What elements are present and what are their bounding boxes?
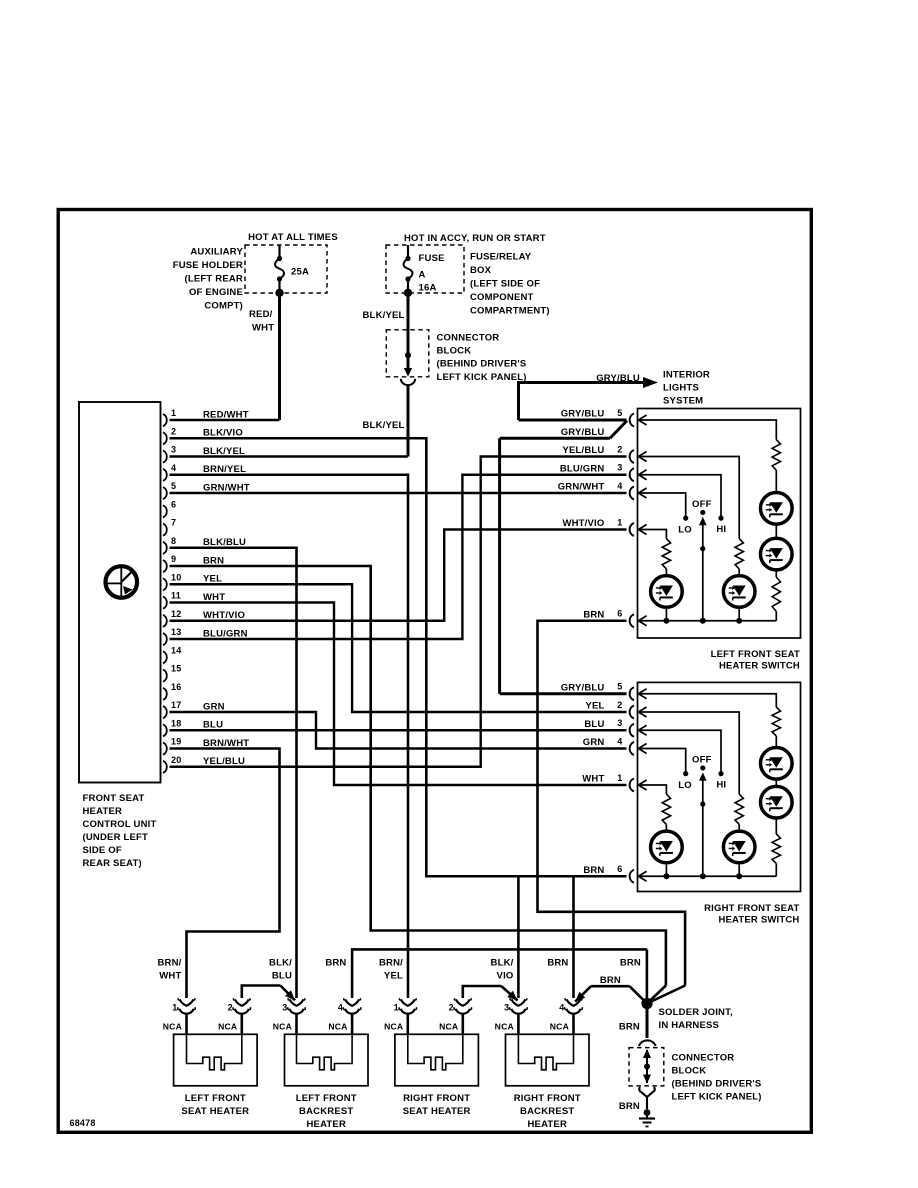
svg-text:GRY/BLU: GRY/BLU: [596, 373, 640, 384]
svg-text:OF ENGINE: OF ENGINE: [189, 287, 243, 298]
svg-text:3: 3: [282, 1002, 287, 1012]
svg-text:(UNDER LEFT: (UNDER LEFT: [83, 832, 149, 843]
svg-text:2: 2: [617, 700, 622, 710]
svg-text:BACKREST: BACKREST: [520, 1106, 574, 1117]
svg-text:4: 4: [559, 1002, 564, 1012]
svg-text:GRY/BLU: GRY/BLU: [561, 427, 605, 438]
svg-text:BRN: BRN: [547, 957, 568, 968]
svg-text:(LEFT REAR: (LEFT REAR: [185, 274, 243, 285]
svg-text:GRN: GRN: [203, 701, 225, 712]
svg-text:BLK/: BLK/: [269, 957, 292, 968]
svg-text:YEL: YEL: [384, 970, 403, 981]
svg-text:LO: LO: [678, 524, 692, 535]
svg-text:HOT IN ACCY, RUN OR START: HOT IN ACCY, RUN OR START: [404, 233, 546, 244]
svg-text:BRN: BRN: [620, 957, 641, 968]
svg-text:GRN/WHT: GRN/WHT: [203, 482, 250, 493]
svg-text:2: 2: [171, 426, 176, 436]
svg-text:3: 3: [504, 1002, 509, 1012]
svg-text:18: 18: [171, 718, 181, 728]
svg-text:HEATER: HEATER: [83, 806, 123, 817]
svg-text:YEL: YEL: [203, 574, 222, 585]
svg-text:1: 1: [394, 1002, 399, 1012]
svg-text:10: 10: [171, 572, 181, 582]
svg-text:HEATER: HEATER: [527, 1119, 567, 1130]
svg-text:6: 6: [617, 864, 622, 874]
svg-text:NCA: NCA: [550, 1021, 569, 1031]
svg-text:NCA: NCA: [328, 1021, 347, 1031]
svg-text:RIGHT FRONT: RIGHT FRONT: [403, 1093, 470, 1104]
svg-text:BRN: BRN: [619, 1021, 640, 1032]
svg-text:BLK/: BLK/: [491, 957, 514, 968]
svg-text:4: 4: [171, 463, 176, 473]
svg-text:13: 13: [171, 627, 181, 637]
svg-text:3: 3: [171, 445, 176, 455]
svg-text:NCA: NCA: [218, 1021, 237, 1031]
svg-text:5: 5: [617, 682, 622, 692]
svg-text:(BEHIND DRIVER'S: (BEHIND DRIVER'S: [672, 1079, 762, 1090]
svg-text:YEL/BLU: YEL/BLU: [203, 756, 245, 767]
svg-text:BLK/YEL: BLK/YEL: [363, 310, 405, 321]
svg-text:68478: 68478: [70, 1118, 96, 1128]
svg-text:6: 6: [171, 499, 176, 509]
svg-text:16: 16: [171, 682, 181, 692]
svg-text:COMPT): COMPT): [204, 301, 243, 312]
svg-text:BLU: BLU: [584, 719, 604, 730]
svg-text:BOX: BOX: [470, 265, 492, 276]
svg-text:4: 4: [617, 736, 622, 746]
svg-text:BLU: BLU: [272, 970, 292, 981]
svg-text:GRY/BLU: GRY/BLU: [561, 409, 605, 420]
svg-text:VIO: VIO: [497, 970, 514, 981]
svg-text:INTERIOR: INTERIOR: [663, 369, 710, 380]
svg-text:1: 1: [171, 408, 176, 418]
svg-text:LEFT KICK PANEL): LEFT KICK PANEL): [437, 372, 527, 383]
svg-text:BLU/GRN: BLU/GRN: [203, 628, 248, 639]
svg-text:RED/: RED/: [249, 309, 273, 320]
svg-text:15: 15: [171, 664, 181, 674]
svg-text:WHT: WHT: [252, 323, 274, 334]
svg-text:BACKREST: BACKREST: [299, 1106, 353, 1117]
svg-text:AUXILIARY: AUXILIARY: [190, 247, 243, 258]
svg-text:8: 8: [171, 536, 176, 546]
svg-text:12: 12: [171, 609, 181, 619]
svg-text:BRN: BRN: [583, 609, 604, 620]
svg-text:SOLDER JOINT,: SOLDER JOINT,: [659, 1007, 733, 1018]
svg-text:GRN/WHT: GRN/WHT: [558, 482, 605, 493]
svg-text:9: 9: [171, 554, 176, 564]
svg-text:BLU/GRN: BLU/GRN: [560, 463, 605, 474]
svg-text:4: 4: [338, 1002, 343, 1012]
svg-text:OFF: OFF: [692, 499, 712, 510]
svg-text:BLU: BLU: [203, 720, 223, 731]
svg-text:14: 14: [171, 645, 181, 655]
svg-text:HI: HI: [716, 780, 726, 791]
svg-text:NCA: NCA: [495, 1021, 514, 1031]
svg-text:HEATER SWITCH: HEATER SWITCH: [719, 660, 800, 671]
svg-text:GRN: GRN: [583, 737, 605, 748]
svg-text:BLK/YEL: BLK/YEL: [363, 420, 405, 431]
svg-text:LIGHTS: LIGHTS: [663, 382, 699, 393]
svg-text:COMPARTMENT): COMPARTMENT): [470, 305, 550, 316]
svg-text:HI: HI: [716, 524, 726, 535]
svg-text:LO: LO: [678, 780, 692, 791]
svg-text:RIGHT FRONT SEAT: RIGHT FRONT SEAT: [704, 903, 799, 914]
svg-text:20: 20: [171, 755, 181, 765]
svg-text:5: 5: [617, 408, 622, 418]
svg-text:WHT: WHT: [159, 970, 181, 981]
svg-text:SYSTEM: SYSTEM: [663, 395, 703, 406]
svg-text:WHT: WHT: [582, 774, 604, 785]
svg-text:IN HARNESS: IN HARNESS: [659, 1020, 720, 1031]
svg-text:5: 5: [171, 481, 176, 491]
svg-text:25A: 25A: [291, 266, 309, 277]
svg-text:WHT/VIO: WHT/VIO: [562, 518, 604, 529]
svg-text:BRN: BRN: [600, 975, 621, 986]
svg-text:WHT/VIO: WHT/VIO: [203, 610, 245, 621]
svg-text:7: 7: [171, 518, 176, 528]
svg-text:GRY/BLU: GRY/BLU: [561, 682, 605, 693]
svg-text:(LEFT SIDE OF: (LEFT SIDE OF: [470, 278, 540, 289]
svg-text:(BEHIND DRIVER'S: (BEHIND DRIVER'S: [437, 359, 527, 370]
svg-text:YEL/BLU: YEL/BLU: [562, 445, 604, 456]
svg-text:COMPONENT: COMPONENT: [470, 292, 534, 303]
svg-text:RED/WHT: RED/WHT: [203, 409, 249, 420]
svg-text:BLOCK: BLOCK: [437, 346, 472, 357]
svg-text:BLK/YEL: BLK/YEL: [203, 446, 245, 457]
svg-text:FUSE: FUSE: [419, 253, 445, 264]
svg-text:16A: 16A: [419, 283, 437, 294]
svg-text:LEFT FRONT: LEFT FRONT: [185, 1093, 246, 1104]
svg-text:BRN/: BRN/: [379, 957, 403, 968]
svg-text:SIDE OF: SIDE OF: [83, 845, 122, 856]
svg-text:BRN: BRN: [325, 957, 346, 968]
svg-text:LEFT KICK PANEL): LEFT KICK PANEL): [672, 1092, 762, 1103]
svg-text:2: 2: [617, 444, 622, 454]
svg-text:REAR SEAT): REAR SEAT): [83, 858, 142, 869]
svg-text:1: 1: [617, 517, 622, 527]
svg-text:2: 2: [449, 1002, 454, 1012]
svg-text:HEATER: HEATER: [306, 1119, 346, 1130]
svg-text:A: A: [419, 270, 426, 281]
svg-text:CONNECTOR: CONNECTOR: [437, 332, 500, 343]
svg-text:OFF: OFF: [692, 754, 712, 765]
svg-text:1: 1: [172, 1002, 177, 1012]
svg-text:3: 3: [617, 718, 622, 728]
svg-text:HOT AT ALL TIMES: HOT AT ALL TIMES: [248, 232, 338, 243]
svg-text:17: 17: [171, 700, 181, 710]
svg-text:WHT: WHT: [203, 592, 225, 603]
svg-text:NCA: NCA: [439, 1021, 458, 1031]
svg-text:6: 6: [617, 609, 622, 619]
svg-text:BLOCK: BLOCK: [672, 1066, 707, 1077]
svg-text:FUSE/RELAY: FUSE/RELAY: [470, 251, 532, 262]
svg-text:BRN/: BRN/: [157, 957, 181, 968]
svg-text:LEFT FRONT: LEFT FRONT: [296, 1093, 357, 1104]
svg-text:LEFT FRONT SEAT: LEFT FRONT SEAT: [711, 649, 800, 660]
svg-text:FUSE HOLDER: FUSE HOLDER: [173, 260, 243, 271]
svg-text:NCA: NCA: [273, 1021, 292, 1031]
svg-text:2: 2: [228, 1002, 233, 1012]
svg-text:CONNECTOR: CONNECTOR: [672, 1053, 735, 1064]
svg-text:11: 11: [171, 591, 181, 601]
svg-text:HEATER SWITCH: HEATER SWITCH: [718, 914, 799, 925]
svg-text:RIGHT FRONT: RIGHT FRONT: [514, 1093, 581, 1104]
svg-text:SEAT HEATER: SEAT HEATER: [403, 1106, 471, 1117]
svg-text:NCA: NCA: [163, 1021, 182, 1031]
svg-text:SEAT HEATER: SEAT HEATER: [181, 1106, 249, 1117]
svg-text:19: 19: [171, 737, 181, 747]
svg-text:BRN: BRN: [583, 865, 604, 876]
svg-text:BRN: BRN: [619, 1101, 640, 1112]
svg-text:3: 3: [617, 463, 622, 473]
svg-text:YEL: YEL: [585, 701, 604, 712]
svg-text:4: 4: [617, 481, 622, 491]
svg-text:CONTROL UNIT: CONTROL UNIT: [83, 819, 157, 830]
svg-text:1: 1: [617, 773, 622, 783]
svg-text:NCA: NCA: [384, 1021, 403, 1031]
svg-text:FRONT SEAT: FRONT SEAT: [83, 793, 145, 804]
